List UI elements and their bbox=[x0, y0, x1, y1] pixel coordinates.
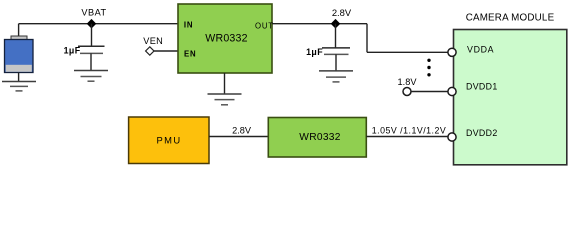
ellipsis dots between VDDA and DVDD1 bbox=[427, 59, 430, 77]
op-amp U2 regulator WR0332 box bbox=[268, 118, 366, 158]
wire VBAT rail from battery to U1 IN bbox=[19, 23, 178, 25]
wire U2 to DVDD2 bbox=[366, 136, 448, 138]
wire cap C1 upper stem bbox=[91, 24, 93, 47]
ground (C2) bbox=[319, 71, 353, 82]
wire cap C2 upper stem bbox=[335, 24, 337, 48]
svg-text:IN: IN bbox=[184, 20, 193, 29]
svg-text:WR0332: WR0332 bbox=[299, 132, 340, 143]
svg-text:VDDA: VDDA bbox=[467, 44, 494, 54]
wire cap C2 lower stem bbox=[335, 54, 337, 71]
node 2.8V junction diamond bbox=[331, 19, 341, 29]
svg-text:CAMERA MODULE: CAMERA MODULE bbox=[466, 12, 555, 23]
wire U1 ground stem bbox=[224, 73, 226, 94]
node VBAT junction diamond bbox=[87, 19, 97, 29]
ground (U1) bbox=[208, 94, 242, 105]
svg-text:VEN: VEN bbox=[143, 36, 163, 46]
svg-text:EN: EN bbox=[184, 50, 196, 59]
svg-text:2.8V: 2.8V bbox=[332, 7, 352, 18]
svg-text:DVDD1: DVDD1 bbox=[466, 82, 498, 92]
svg-text:VBAT: VBAT bbox=[81, 8, 106, 18]
terminal DVDD1 circle bbox=[448, 87, 456, 95]
svg-text:PMU: PMU bbox=[156, 135, 181, 146]
ground (battery) bbox=[2, 82, 36, 91]
camera module box bbox=[454, 30, 567, 165]
wire corner to VDDA bbox=[367, 51, 448, 53]
op-amp U1 regulator WR0332 box bbox=[178, 4, 272, 73]
capacitor C2 bbox=[322, 48, 350, 55]
svg-text:WR0332: WR0332 bbox=[205, 33, 247, 45]
ground (C1) bbox=[74, 71, 108, 82]
wire 1.8V to DVDD1 bbox=[411, 91, 448, 93]
svg-text:OUT: OUT bbox=[255, 21, 274, 30]
capacitor C1 bbox=[78, 46, 105, 53]
svg-text:1.8V: 1.8V bbox=[398, 77, 418, 87]
wire corner down bbox=[366, 24, 368, 53]
svg-text:1.05V /1.1V/1.2V: 1.05V /1.1V/1.2V bbox=[372, 125, 447, 135]
wire battery negative stem bbox=[18, 73, 20, 82]
terminal VEN open diamond bbox=[146, 47, 154, 55]
wire VEN to U1 EN bbox=[154, 50, 178, 52]
terminal 1.8V open circle bbox=[403, 88, 411, 96]
svg-text:1μF: 1μF bbox=[306, 47, 323, 57]
svg-text:2.8V: 2.8V bbox=[232, 126, 252, 136]
terminal DVDD2 circle bbox=[448, 133, 456, 141]
terminal VDDA circle bbox=[448, 48, 456, 56]
wire battery positive stem bbox=[18, 24, 20, 37]
svg-text:DVDD2: DVDD2 bbox=[466, 128, 498, 138]
PMU box bbox=[129, 117, 209, 164]
battery BT1 bbox=[5, 36, 34, 73]
wire U1 OUT to corner bbox=[272, 23, 367, 25]
wire PMU to U2 bbox=[209, 136, 268, 138]
wire cap C1 lower stem bbox=[90, 53, 92, 70]
